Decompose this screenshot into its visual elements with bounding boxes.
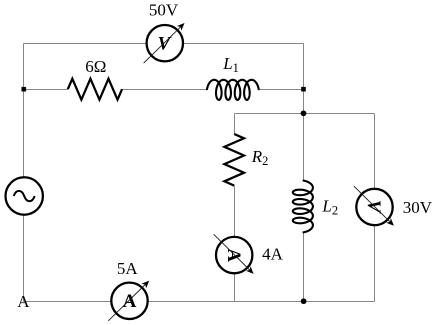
svg-text:30V: 30V xyxy=(403,198,433,217)
wire right vertical below inductor L2 xyxy=(303,232,305,301)
ammeter A2 arrow xyxy=(214,234,252,272)
wire 30V branch below voltmeter V2 xyxy=(374,225,376,301)
wire top-left from corner to voltmeter V1 xyxy=(24,43,147,45)
svg-text:V: V xyxy=(158,33,172,54)
svg-text:A: A xyxy=(223,248,244,262)
wire 30V branch above voltmeter V2 xyxy=(374,114,376,190)
wire bottom from node A to ammeter A1 xyxy=(24,301,112,303)
junction dot parallel rail xyxy=(301,110,307,116)
wire middle row between resistor 6ohm and inductor L1 xyxy=(122,89,207,91)
wire top-right from voltmeter V1 to right corner xyxy=(183,43,304,45)
ammeter A2 4A xyxy=(216,237,252,273)
wire bottom from ammeter A1 to bottom-right corner xyxy=(148,301,375,303)
junction dot bottom rail xyxy=(301,298,307,304)
ammeter A1 arrow xyxy=(108,282,147,320)
junction dot right middle xyxy=(301,87,306,92)
wire middle row from inductor L1 to right junction xyxy=(259,89,304,91)
wire middle row left of resistor 6ohm xyxy=(24,89,68,91)
wire left vertical above AC source xyxy=(23,44,25,178)
svg-text:5A: 5A xyxy=(117,259,139,278)
voltmeter V2 arrow xyxy=(354,186,392,224)
inductor L2 xyxy=(293,181,313,233)
AC source xyxy=(6,177,43,214)
wire left vertical below AC source xyxy=(23,215,25,302)
wire R2 branch between resistor R2 and ammeter A2 xyxy=(234,186,236,238)
ammeter A1 5A xyxy=(111,283,147,319)
svg-text:V: V xyxy=(363,200,384,214)
svg-text:A: A xyxy=(17,292,30,311)
wire R2 branch above resistor R2 xyxy=(234,114,236,135)
resistor 6 ohm xyxy=(68,79,122,100)
svg-text:A: A xyxy=(123,291,137,312)
wire parallel branch top rail xyxy=(235,113,375,115)
junction dot left middle xyxy=(22,87,27,92)
voltmeter V1 50V xyxy=(147,25,183,61)
voltmeter V2 30V xyxy=(356,189,392,225)
svg-text:6Ω: 6Ω xyxy=(85,57,106,76)
resistor R2 xyxy=(224,134,244,186)
inductor L1 xyxy=(207,80,259,100)
svg-text:50V: 50V xyxy=(149,1,179,20)
svg-text:L1: L1 xyxy=(222,54,239,75)
svg-text:4A: 4A xyxy=(262,244,284,263)
wire right vertical from top corner down to inductor L2 xyxy=(303,44,305,181)
voltmeter V1 arrow xyxy=(144,25,183,63)
AC source sine wave xyxy=(14,191,35,201)
svg-text:R2: R2 xyxy=(251,147,269,168)
svg-text:L2: L2 xyxy=(321,197,338,218)
wire R2 branch below ammeter A2 xyxy=(234,273,236,301)
